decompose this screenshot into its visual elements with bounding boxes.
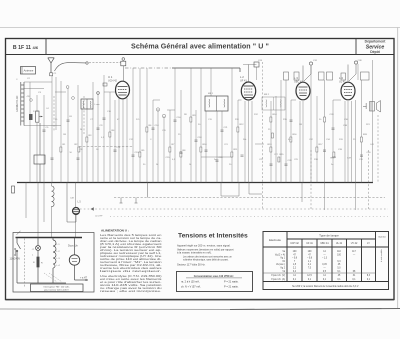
svg-text:Les valeurs des tensions sont: Les valeurs des tensions sont mesurées a… [183, 256, 232, 259]
svg-text:vers HP: vers HP [95, 215, 103, 218]
below-bus coil [52, 186, 55, 207]
svg-text:Tensions et Intensités: Tensions et Intensités [178, 233, 248, 240]
table electrode rows [271, 251, 286, 281]
tube UF41 [241, 82, 255, 100]
svg-text:Vg 2: Vg 2 [280, 268, 285, 270]
main frame [6, 39, 395, 300]
top right small boxes [284, 72, 370, 80]
svg-text:U 1: U 1 [108, 75, 113, 79]
below-bus steps [26, 183, 302, 238]
svg-text:à vide audible: à vide audible [381, 248, 383, 262]
svg-text:Consommation sous 110 V/50 Hz: Consommation sous 110 V/50 Hz : [194, 275, 235, 278]
alim top bus [16, 237, 83, 239]
svg-text:ALIMENTATION U :: ALIMENTATION U : [101, 229, 129, 233]
dashed lines [54, 62, 388, 217]
svg-text:L 2: L 2 [240, 75, 244, 79]
cadre coil [21, 82, 24, 126]
svg-text:CADRE PO-GO: CADRE PO-GO [16, 95, 19, 112]
svg-text:ch. N + V (57 mA,: ch. N + V (57 mA, [181, 286, 201, 289]
svg-text:à la masse; intensités en mA).: à la masse; intensités en mA). [177, 251, 212, 255]
svg-text:LY: LY [367, 242, 370, 245]
svg-text:Antenne: Antenne [24, 69, 34, 73]
svg-text:UF 41: UF 41 [240, 80, 247, 83]
svg-text:voltmètre électronique, sans d: voltmètre électronique, sans débit de co… [183, 258, 229, 261]
svg-text:lampes du récepteur.: lampes du récepteur. [100, 269, 162, 273]
antenna coupling cap [50, 73, 53, 76]
svg-text:Gamme: Gamme [378, 237, 387, 239]
svg-text:Schéma Général avec alimentati: Schéma Général avec alimentation " U " [131, 43, 269, 51]
tuning gang link (dash) [53, 96, 55, 132]
svg-text:1M: 1M [63, 134, 66, 136]
page edge top [0, 27, 400, 29]
dashed mech links [44, 273, 57, 282]
svg-text:P = 21 watts.: P = 21 watts. [224, 281, 239, 284]
mains input left [16, 238, 18, 244]
svg-text:L.osc: L.osc [95, 104, 101, 106]
small resistors (vertical) [34, 117, 363, 162]
svg-text:Dépôt: Dépôt [370, 50, 380, 54]
svg-text:If pour ch. (V): If pour ch. (V) [271, 274, 285, 277]
speaker + output transformer [363, 101, 381, 113]
svg-text:Vg (2 + 4): Vg (2 + 4) [275, 254, 285, 256]
table mid rule [263, 272, 376, 274]
tube UL41 [341, 82, 355, 100]
svg-text:+ a HT: + a HT [80, 278, 88, 280]
dark cap blob [29, 114, 33, 120]
svg-text:P = 21 watts.: P = 21 watts. [224, 286, 239, 289]
svg-text:– 0,8: – 0,8 [292, 258, 298, 260]
table values [292, 251, 371, 281]
svg-text:12,5: 12,5 [307, 275, 312, 277]
svg-text:MF 1: MF 1 [208, 93, 214, 95]
page edge right [397, 28, 399, 310]
cadre arc wire [55, 63, 86, 71]
osc coil box [81, 99, 93, 109]
svg-text:Appareil réglé sur 200 m. envi: Appareil réglé sur 200 m. environ, sans … [177, 244, 231, 248]
chassis bus [17, 182, 373, 184]
tube UCH42 [97, 81, 130, 99]
rect tube lead [74, 238, 76, 256]
alim extra details [15, 231, 25, 288]
svg-text:Va (osc.): Va (osc.) [276, 264, 285, 266]
lamp [37, 238, 39, 246]
resistor dark [37, 257, 39, 267]
svg-text:UBC 41: UBC 41 [320, 242, 329, 245]
svg-text:Electrode: Electrode [269, 238, 281, 242]
svg-text:UL 41: UL 41 [336, 242, 343, 245]
svg-text:Département: Département [365, 40, 387, 44]
switch text box [31, 284, 84, 292]
svg-text:0,45: 0,45 [322, 264, 327, 266]
title band right divider [355, 39, 357, 55]
small caps (horizontal pairs) [43, 118, 364, 165]
svg-text:If pour ch. (A): If pour ch. (A) [271, 278, 285, 281]
svg-text:réseau ; elle est incorporée.: réseau ; elle est incorporée. [100, 289, 162, 293]
IF can 2 [262, 97, 285, 110]
jack circle [73, 208, 80, 215]
choke coil [52, 238, 54, 241]
tube UBC41 [296, 82, 310, 100]
svg-text:Sur 200 V, la tension filament: Sur 200 V, la tension filament de l'ense… [292, 285, 359, 288]
svg-text:MF 2: MF 2 [264, 94, 270, 96]
trimmer circles [30, 86, 166, 118]
svg-text:L 3: L 3 [294, 76, 298, 80]
svg-text:110/245V: 110/245V [10, 258, 21, 261]
svg-text:UBC 41: UBC 41 [294, 81, 303, 84]
alim box [13, 233, 94, 293]
svg-text:Secteur 117 Volts 50 Hz.: Secteur 117 Volts 50 Hz. [177, 262, 206, 266]
grid coupling cap C10 [103, 83, 107, 86]
wires horizontal short [24, 65, 341, 158]
svg-text:UF 41: UF 41 [306, 242, 313, 245]
svg-text:Type de lampe: Type de lampe [319, 234, 339, 238]
svg-text:– 0,8: – 0,8 [307, 258, 313, 260]
svg-text:– 1,3: – 1,3 [322, 258, 328, 260]
antenna [48, 58, 54, 76]
svg-text:UY 42: UY 42 [351, 242, 358, 245]
svg-text:Interrupteur "M1" 110 volts: Interrupteur "M1" 110 volts [44, 285, 71, 288]
circuit labels [27, 60, 371, 162]
svg-text:UCH 42: UCH 42 [290, 242, 299, 245]
tube top leads [123, 64, 356, 82]
AVC line taps [120, 183, 148, 204]
svg-text:Vg 1: Vg 1 [280, 258, 285, 260]
Antenne box [21, 67, 36, 75]
svg-text:ra. 2 à h (20 mA,: ra. 2 à h (20 mA, [181, 281, 200, 284]
title band left divider [45, 39, 47, 55]
left boxes [36, 111, 39, 122]
title band bottom line [6, 54, 395, 56]
jack U-loop [67, 183, 94, 223]
wires vertical [30, 60, 373, 210]
IF can 1 [205, 96, 228, 111]
consumption box [177, 272, 253, 292]
svg-text:Duov. Un: Duov. Un [68, 245, 78, 248]
svg-text:UL 41: UL 41 [339, 81, 346, 84]
HT top bus [125, 67, 172, 69]
svg-text:UCH 42: UCH 42 [108, 80, 118, 83]
component value labels [16, 79, 375, 166]
svg-text:1M: 1M [299, 124, 302, 126]
page edge bottom [0, 308, 230, 311]
HP return (dash) [377, 115, 379, 183]
table tube headers [290, 237, 386, 246]
svg-text:pour secteur 220 à 245 V: pour secteur 220 à 245 V [44, 288, 69, 291]
